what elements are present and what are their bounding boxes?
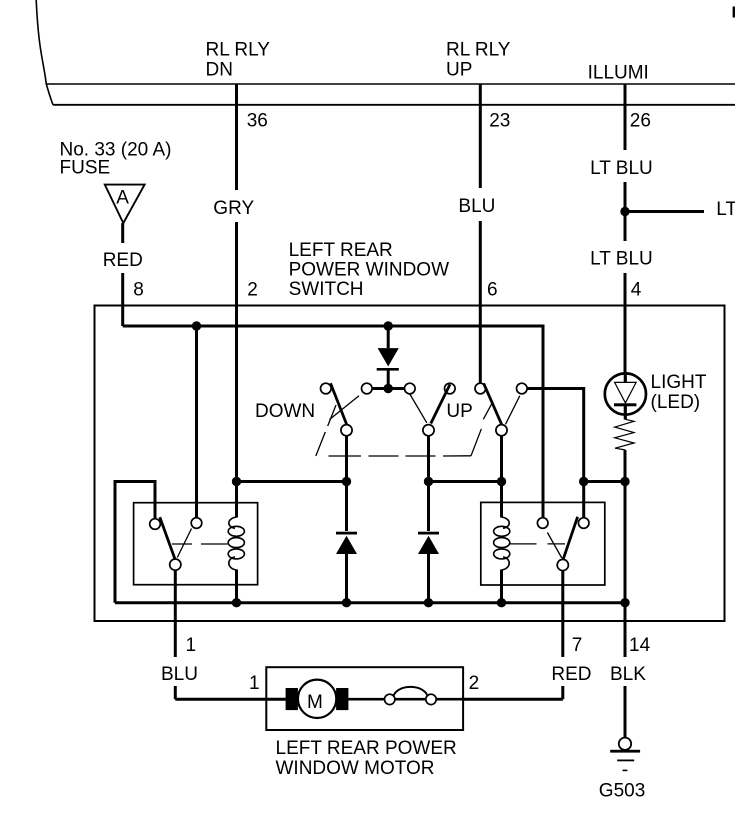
wire junction row: right contact to pin14 wire xyxy=(584,480,625,483)
relay K2 box (right) xyxy=(481,502,605,585)
wire c6 to right drop xyxy=(527,389,584,482)
svg-text:(LED): (LED) xyxy=(651,392,701,413)
diode D3 on UP drop xyxy=(418,532,439,535)
wire pin14 to ground xyxy=(624,603,627,738)
svg-text:LEFT REAR POWER: LEFT REAR POWER xyxy=(276,738,457,759)
relay K1 dashes xyxy=(172,543,192,545)
svg-text:A: A xyxy=(116,188,129,209)
thin alternate line DOWN xyxy=(330,396,360,420)
node dots bottom bus xyxy=(232,598,241,607)
LED light wire upper xyxy=(624,374,627,382)
harness outline curve xyxy=(36,0,53,105)
relay K2 coil xyxy=(502,517,510,528)
switch contact circles top row xyxy=(321,383,332,394)
svg-text:LT: LT xyxy=(716,199,735,220)
wire left relay middle contact vertical xyxy=(195,326,198,518)
svg-text:DOWN: DOWN xyxy=(255,401,315,422)
relay K1 coil xyxy=(229,517,237,528)
wire UP common drop xyxy=(427,436,430,531)
circuit breaker arc xyxy=(394,687,428,696)
svg-text:G503: G503 xyxy=(599,781,645,802)
svg-text:GRY: GRY xyxy=(213,198,254,219)
svg-text:8: 8 xyxy=(133,280,144,301)
svg-text:LIGHT: LIGHT xyxy=(651,372,707,393)
svg-text:LEFT REAR: LEFT REAR xyxy=(289,240,393,261)
svg-text:14: 14 xyxy=(629,635,651,656)
motor brushes xyxy=(286,688,298,710)
svg-text:26: 26 xyxy=(630,111,651,132)
label backgrounds xyxy=(206,190,260,222)
svg-text:RED: RED xyxy=(103,250,143,271)
svg-text:POWER WINDOW: POWER WINDOW xyxy=(289,260,449,281)
svg-text:RL RLY: RL RLY xyxy=(206,40,271,61)
wire pin26 ILLUMI vertical xyxy=(624,84,627,374)
diode D1 wire upper xyxy=(387,326,390,348)
page letter fragment top-right xyxy=(733,7,735,18)
relay K2 thin release line xyxy=(547,533,561,559)
lever DOWN switch xyxy=(331,383,347,424)
wire third switch common drop xyxy=(500,436,503,514)
wire internal top bus from pin8 xyxy=(123,326,543,518)
wire resistor to junction xyxy=(624,450,627,603)
svg-text:BLU: BLU xyxy=(458,196,495,217)
wire pin1 to motor xyxy=(175,698,285,701)
node junction diode/bar xyxy=(384,384,393,393)
big box LEFT REAR POWER WINDOW SWITCH xyxy=(95,306,725,622)
wire DOWN common drop xyxy=(345,436,348,531)
lever third switch xyxy=(484,383,502,424)
svg-text:2: 2 xyxy=(247,280,258,301)
svg-text:SWITCH: SWITCH xyxy=(289,279,364,300)
svg-text:RED: RED xyxy=(551,664,591,685)
node junction on top bus to left relay xyxy=(192,321,201,330)
wire pin7 to motor xyxy=(463,698,563,701)
motor M circle xyxy=(298,680,336,718)
ground symbol G503 xyxy=(619,738,631,750)
svg-text:23: 23 xyxy=(489,111,510,132)
switch contact circles bottom row xyxy=(341,425,352,436)
relay K1 coil wires xyxy=(235,482,238,518)
relay K1 box (left) xyxy=(134,503,258,585)
svg-text:BLU: BLU xyxy=(161,664,198,685)
mech linkage dashed trapezoid xyxy=(316,432,326,456)
wire LT branch xyxy=(625,210,704,213)
relay K1 thin release line xyxy=(177,529,191,558)
svg-text:WINDOW MOTOR: WINDOW MOTOR xyxy=(276,758,435,779)
LED lower stub xyxy=(624,406,627,419)
diode D1 (pointing down) xyxy=(378,348,399,366)
lever UP switch xyxy=(431,384,450,423)
wire pin23 BLU vertical xyxy=(479,84,482,383)
wire pin36 GRY vertical xyxy=(235,84,238,482)
svg-text:ILLUMI: ILLUMI xyxy=(588,63,649,84)
wire junction row: UP to right coil xyxy=(429,480,502,483)
relay K1 lever xyxy=(160,517,175,558)
svg-text:UP: UP xyxy=(446,60,472,81)
diode D1 wire lower xyxy=(387,369,390,389)
svg-text:FUSE: FUSE xyxy=(60,158,111,179)
diode D2 on DOWN drop xyxy=(336,532,357,535)
relay K1 contact circles xyxy=(150,519,161,530)
node dots junction row xyxy=(232,477,241,486)
svg-text:M: M xyxy=(307,692,323,713)
svg-text:BLK: BLK xyxy=(610,664,646,685)
relay K2 dashes xyxy=(510,543,537,545)
relay K2 contact circles xyxy=(537,518,548,529)
wire ground L-hook left xyxy=(115,482,155,603)
node LT branch junction xyxy=(620,207,629,216)
svg-text:1: 1 xyxy=(186,635,197,656)
fuse No.33 triangle xyxy=(105,185,145,224)
svg-text:6: 6 xyxy=(487,280,498,301)
thin alternate line UP xyxy=(410,394,427,423)
svg-text:LT BLU: LT BLU xyxy=(590,158,653,179)
node junction on top bus to diode D1 xyxy=(384,321,393,330)
svg-text:LT BLU: LT BLU xyxy=(590,249,653,270)
svg-text:2: 2 xyxy=(469,673,480,694)
svg-text:4: 4 xyxy=(631,280,642,301)
LED cathode bar xyxy=(614,403,636,406)
relay K1 contact wires xyxy=(174,570,177,699)
LED circle xyxy=(605,373,646,414)
svg-text:7: 7 xyxy=(572,635,583,656)
motor box xyxy=(266,667,463,730)
wire bar c2-c3 xyxy=(372,387,404,390)
relay K2 coil wires xyxy=(500,482,503,518)
motor internal wire xyxy=(286,698,464,701)
svg-text:DN: DN xyxy=(206,60,233,81)
circuit breaker circles xyxy=(385,694,395,704)
LED triangle xyxy=(615,382,637,403)
svg-text:UP: UP xyxy=(446,401,472,422)
svg-text:RL RLY: RL RLY xyxy=(446,40,511,61)
bus line lower xyxy=(53,104,735,106)
svg-text:1: 1 xyxy=(249,673,260,694)
resistor zigzag xyxy=(615,419,634,450)
thin alternate line third xyxy=(506,396,520,425)
bus line upper xyxy=(47,83,735,85)
wire fuse RED vertical xyxy=(121,223,124,326)
wire bottom ground bus xyxy=(115,601,625,604)
relay K2 lever xyxy=(563,517,578,560)
svg-text:36: 36 xyxy=(247,111,268,132)
relay K2 contact wires xyxy=(561,571,564,700)
wire junction row: GRY to DOWN xyxy=(237,480,347,483)
